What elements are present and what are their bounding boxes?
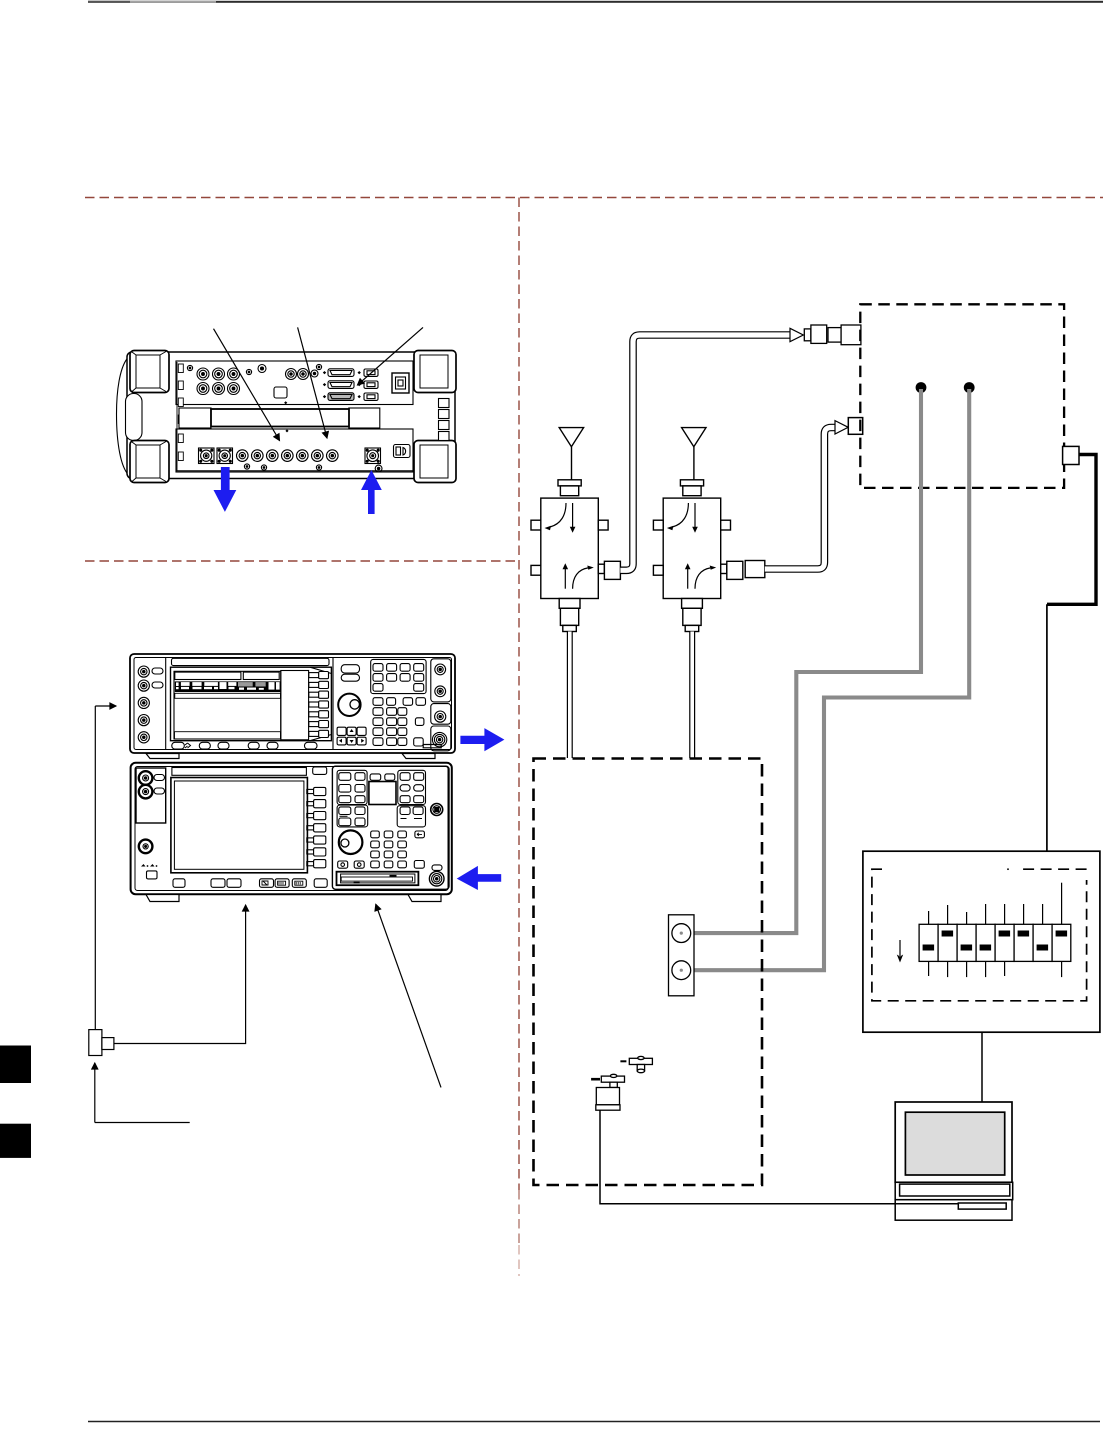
oval + RF input BNC (432, 865, 442, 871)
internal arrows (545, 503, 594, 589)
connector panel with two jacks (669, 915, 695, 996)
feet (146, 754, 179, 759)
internal arrows 2 (667, 503, 716, 589)
softkeys (309, 672, 329, 738)
duplexer1 bottom cable (to BTS) (567, 632, 573, 759)
D-sub connectors (323, 369, 361, 401)
right flange RF IN/OUT (365, 448, 381, 464)
side tabs (531, 520, 541, 530)
right strip squares (439, 399, 450, 408)
table header boxes (175, 672, 241, 679)
thin line down to interface box (1046, 604, 1048, 851)
duplexer2 bottom cable (to BTS) (689, 632, 695, 759)
body (541, 498, 599, 598)
floppy drive (337, 872, 419, 886)
blue arrow right (to DUT) (460, 728, 504, 751)
display bezel (171, 667, 332, 741)
bumper BR (414, 441, 456, 483)
knob (338, 694, 360, 716)
feet (146, 895, 179, 902)
red dashed divider horizontal left (85, 560, 519, 562)
blue arrow left (from DUT) (457, 866, 502, 890)
top bar above display (172, 658, 330, 665)
gray cable 1 (691, 389, 921, 933)
line from interface box down to laptop (981, 1032, 983, 1102)
open arrowhead cable2 (835, 421, 848, 434)
right port connector 2 (721, 564, 727, 573)
softkey white column (281, 671, 309, 740)
mid row keys (373, 698, 383, 706)
top header rule (88, 1, 1103, 3)
left handle (126, 394, 143, 441)
DUT input connector stack (804, 325, 861, 345)
top strip (172, 768, 307, 776)
fan / line module (392, 373, 409, 393)
small rect connectors (364, 369, 378, 376)
right section (332, 766, 449, 889)
adapter body box (596, 1088, 620, 1111)
small down arrow (899, 940, 901, 956)
aux port connector (848, 418, 862, 435)
screen area (174, 671, 281, 739)
test point dot 2 (964, 382, 975, 393)
test point dot 1 (916, 382, 927, 393)
lower recessed panel (176, 429, 413, 472)
black cable from DUT right port (1047, 455, 1096, 605)
softkeys (307, 787, 326, 867)
menu buttons row (172, 742, 317, 749)
page edge black tab 2 (0, 1124, 31, 1158)
top connector (558, 480, 581, 486)
open arrowhead cable1 (790, 328, 803, 341)
callout: GPIB connector symbol at left (89, 706, 441, 1123)
bottom footer rule (88, 1421, 1100, 1423)
rear callout line 2 (298, 327, 327, 438)
right port connector (598, 564, 604, 573)
left bracket column (176, 362, 178, 471)
single connector (258, 365, 266, 373)
inner dashed frame: left, bottom, right (872, 869, 1087, 1001)
bumper TL (130, 351, 169, 393)
lower row BNCs (237, 450, 339, 462)
two stacked ovals (341, 665, 359, 673)
knob (339, 830, 363, 854)
two round-dot keys (338, 861, 348, 868)
mid section divider (332, 658, 334, 749)
wires above (929, 883, 1062, 925)
side tabs 2 (653, 520, 663, 530)
right top cluster (398, 770, 426, 804)
bottom connector stack (559, 599, 580, 609)
upper panel: 2x3 BNC cluster (197, 368, 240, 395)
left connector column (165, 658, 167, 749)
middle top keys + big pad (370, 774, 381, 780)
screen bottom band (175, 732, 281, 739)
black jumper marks (923, 931, 1068, 951)
serial cable into laptop base (890, 1203, 958, 1205)
numpad 3x4 (373, 708, 407, 746)
mid BNC pair (286, 369, 297, 380)
left side curve (117, 355, 132, 477)
bottom menu row (173, 879, 327, 888)
top-left key cluster (337, 770, 367, 804)
page edge black tab 1 (0, 1046, 31, 1084)
right port connector on DUT (1063, 446, 1079, 464)
lower panel: flange connectors (199, 448, 215, 464)
arrow cluster (337, 727, 366, 745)
adapter T 1 (upper) (620, 1056, 652, 1072)
bumper BL (130, 441, 169, 483)
display (171, 778, 308, 873)
red dashed divider horizontal top (85, 197, 1103, 199)
BNC right (431, 804, 443, 816)
body 2 (663, 498, 721, 598)
antenna 2 (682, 428, 706, 447)
blue arrow down (rear) (214, 467, 237, 512)
rear callout line 3 (358, 327, 424, 385)
bumper TR (414, 351, 456, 393)
gray cable 2 (691, 389, 969, 970)
lower panel screws (244, 464, 249, 469)
right connector strip (431, 659, 451, 702)
terminal block cells (919, 924, 1071, 961)
wires below (929, 961, 1062, 977)
antenna (559, 428, 583, 447)
blue arrow up (rear) (361, 470, 382, 514)
numpad (371, 831, 407, 868)
left column (136, 768, 166, 823)
main body (127, 352, 455, 479)
power inlet (394, 445, 411, 458)
upper panel: screws (187, 365, 192, 370)
middle handle band (179, 408, 211, 428)
upper recessed panel (176, 361, 413, 405)
module (274, 387, 287, 398)
toolbar band (black with white cells) (175, 681, 281, 692)
serial cable from adapter down (600, 1110, 890, 1204)
rear callout line 1 (214, 329, 280, 441)
top key block (371, 659, 426, 693)
white RF cable 2: duplexer2 to DUT aux port (765, 428, 838, 570)
bottom connector stack 2 (682, 599, 703, 609)
panel bottom line (176, 470, 413, 472)
top connector 2 (680, 480, 703, 486)
adapter T 2 (lower) (591, 1074, 624, 1087)
red dashed divider vertical (518, 198, 520, 1191)
white RF cable 1: duplexer1 to DUT RF port (620, 335, 790, 570)
